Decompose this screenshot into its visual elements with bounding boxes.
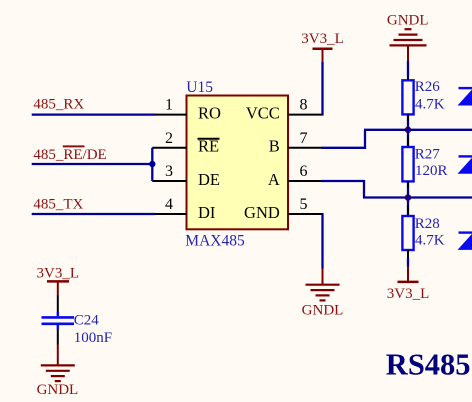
pin stub C24 bottom xyxy=(57,330,59,345)
svg-text:U15: U15 xyxy=(186,79,213,96)
svg-text:4.7K: 4.7K xyxy=(415,97,445,113)
pin 3 DE xyxy=(152,163,220,189)
power port 3V3_L below R28 xyxy=(387,267,430,302)
svg-text:R27: R27 xyxy=(415,146,441,162)
svg-text:MAX485: MAX485 xyxy=(185,233,245,250)
svg-text:3V3_L: 3V3_L xyxy=(387,286,430,302)
svg-text:5: 5 xyxy=(300,196,308,213)
resistor R26 xyxy=(402,79,444,114)
svg-text:RO: RO xyxy=(198,104,221,123)
svg-text:VCC: VCC xyxy=(246,104,280,123)
diode D2 (clipped at right edge) xyxy=(458,156,472,173)
pin 4 DI xyxy=(156,196,216,222)
svg-text:GNDL: GNDL xyxy=(302,302,344,318)
pin 2 RE xyxy=(152,130,219,156)
junction node at RE/DE split xyxy=(149,161,155,167)
svg-text:C24: C24 xyxy=(74,312,100,328)
svg-text:485_RX: 485_RX xyxy=(33,96,84,112)
pin stub R28 top xyxy=(407,206,409,217)
pin stub R26 top xyxy=(407,77,409,80)
svg-text:GNDL: GNDL xyxy=(387,12,429,28)
wire 485_TX xyxy=(32,213,156,215)
svg-text:4.7K: 4.7K xyxy=(415,233,445,249)
wire bus A to right edge xyxy=(363,196,472,198)
svg-text:GNDL: GNDL xyxy=(37,382,79,398)
wire bracket vertical to pins 2,3 xyxy=(151,148,153,181)
svg-text:6: 6 xyxy=(300,163,308,180)
svg-text:3V3_L: 3V3_L xyxy=(37,266,80,282)
diode D1 (clipped at right edge) xyxy=(458,88,472,105)
svg-text:RS485: RS485 xyxy=(386,347,471,381)
svg-text:A: A xyxy=(268,170,280,189)
svg-text:485_RE/DE: 485_RE/DE xyxy=(33,147,106,163)
pin 8 VCC xyxy=(246,97,324,123)
net label 485_RE/DE xyxy=(33,146,106,163)
wire GNDL to R26 xyxy=(407,61,409,77)
svg-text:GND: GND xyxy=(244,203,280,222)
wire 485_RX xyxy=(32,113,156,115)
pin 7 B xyxy=(269,130,321,156)
svg-text:2: 2 xyxy=(165,130,173,147)
wire R26 to R27 xyxy=(407,114,409,147)
pin stub R28 bottom xyxy=(407,250,409,258)
svg-text:120R: 120R xyxy=(415,163,448,179)
pin 6 A xyxy=(268,163,321,189)
svg-text:8: 8 xyxy=(300,97,308,114)
pin stub C24 top xyxy=(57,296,59,313)
svg-text:1: 1 xyxy=(165,97,173,114)
capacitor C24 xyxy=(42,312,113,346)
ground GNDL below C24 xyxy=(37,345,79,399)
junction node below R26 xyxy=(405,127,412,134)
wire pin5 to GNDL xyxy=(321,214,323,269)
pin 5 GND xyxy=(244,196,323,222)
pin stub R26 bottom xyxy=(407,114,409,120)
svg-text:4: 4 xyxy=(165,196,173,213)
wire bus B to right edge xyxy=(364,129,472,131)
wire 485_RE/DE xyxy=(32,163,153,165)
svg-text:DI: DI xyxy=(198,203,215,222)
pin stub R27 top xyxy=(407,137,409,148)
resistor R27 xyxy=(402,146,447,181)
resistor R28 xyxy=(402,216,444,250)
svg-text:485_TX: 485_TX xyxy=(33,196,83,212)
svg-text:R28: R28 xyxy=(415,216,440,232)
op-amp U15 body (MAX485 IC rectangle) xyxy=(187,96,289,230)
power port 3V3_L above pin 8 xyxy=(301,31,344,62)
svg-text:3V3_L: 3V3_L xyxy=(301,31,344,47)
ground GNDL top right xyxy=(387,12,429,61)
svg-text:7: 7 xyxy=(300,130,308,147)
wire pin6 A to bus xyxy=(321,181,364,198)
pin stub R27 bottom xyxy=(407,181,409,188)
svg-text:B: B xyxy=(269,137,280,156)
ground GNDL below pin 5 xyxy=(302,269,344,319)
wire R28 to 3V3_L xyxy=(407,258,409,267)
wire pin8 to 3V3_L xyxy=(321,62,323,115)
diode D3 (clipped at right edge) xyxy=(458,233,472,250)
power port 3V3_L above C24 xyxy=(37,266,80,296)
svg-text:3: 3 xyxy=(165,163,173,180)
wire pin7 B to bus xyxy=(321,130,365,148)
wire R27 to R28 xyxy=(407,181,409,216)
svg-text:DE: DE xyxy=(198,170,220,189)
svg-text:R26: R26 xyxy=(415,79,441,95)
pin 1 RO xyxy=(156,97,222,123)
svg-text:100nF: 100nF xyxy=(74,330,112,346)
junction node below R27 xyxy=(405,194,412,201)
